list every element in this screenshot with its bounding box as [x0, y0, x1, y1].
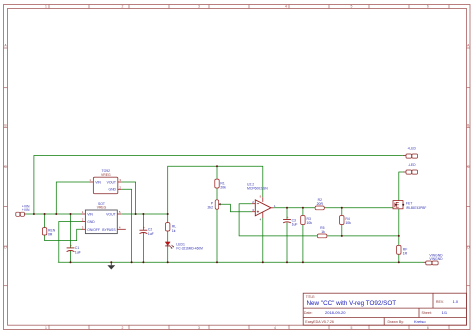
- capacitor C2: [140, 225, 154, 236]
- svg-text:VOUT: VOUT: [106, 212, 115, 216]
- svg-text:+LED: +LED: [407, 146, 416, 150]
- junction ground bus / opamp V-: [262, 261, 264, 263]
- svg-text:20R: 20R: [317, 202, 324, 206]
- wire C1 top: [70, 214, 72, 248]
- svg-text:2018-09-20: 2018-09-20: [325, 310, 346, 315]
- wire R2 to FET gate: [324, 207, 393, 209]
- wire ground bus: [58, 261, 424, 263]
- junction ground bus / RF bottom: [398, 261, 400, 263]
- junction gate wire / R4 top: [341, 207, 343, 209]
- wire REN bottom to ON/OFF: [45, 229, 82, 240]
- svg-text:+VIN: +VIN: [22, 208, 30, 212]
- wire LED to ground bus: [167, 246, 169, 262]
- svg-text:ON/OFF: ON/OFF: [87, 228, 100, 232]
- svg-text:GND: GND: [108, 188, 116, 192]
- wire VIN bus from input connector to SOT VIN: [26, 213, 82, 215]
- wire TO92 VOUT down: [122, 182, 136, 214]
- resistor R5: [317, 226, 327, 238]
- wire TO92 GND down: [122, 189, 132, 262]
- wire opamp V- to ground bus: [262, 218, 264, 262]
- connector -LED pads: [403, 170, 418, 174]
- svg-text:IRLB8743PBF: IRLB8743PBF: [406, 206, 426, 210]
- svg-text:1/1: 1/1: [442, 310, 448, 315]
- svg-text:New "CC" with V-reg TO92/SOT: New "CC" with V-reg TO92/SOT: [307, 300, 397, 307]
- wire R3 bottom: [302, 225, 304, 263]
- connector +LED pads: [403, 154, 418, 158]
- junction VOUT rail / TO92 VOUT: [135, 213, 137, 215]
- wire RF bottom: [398, 254, 400, 262]
- wire SOT GND to ground bus: [59, 222, 82, 263]
- svg-text:Drawn By:: Drawn By:: [388, 320, 405, 324]
- svg-text:1k: 1k: [321, 230, 325, 234]
- wire R4 bottom: [341, 225, 343, 236]
- wire REN top: [44, 214, 46, 228]
- svg-text:6: 6: [427, 5, 429, 9]
- junction ground bus / R3 bottom: [302, 261, 304, 263]
- connector VINGND pads: [424, 261, 439, 265]
- wire R4 top: [341, 208, 343, 216]
- junction VIN rail / C1 top: [70, 213, 72, 215]
- capacitor C3: [283, 215, 297, 227]
- ground symbol: [107, 262, 115, 269]
- svg-text:2: 2: [122, 326, 124, 330]
- svg-text:BYPASS: BYPASS: [102, 228, 116, 232]
- svg-text:REV.: REV.: [436, 300, 444, 304]
- svg-text:1: 1: [45, 326, 47, 330]
- junction opamp output / C3: [286, 207, 288, 209]
- svg-text:6: 6: [427, 326, 429, 330]
- wire C2 top: [142, 214, 144, 230]
- wire feedback right segment: [327, 235, 399, 237]
- wire pot wiper to opamp non-inverting input: [220, 204, 252, 212]
- svg-text:5: 5: [351, 326, 353, 330]
- junction VOUT rail / C2 top: [142, 213, 144, 215]
- svg-text:10k: 10k: [345, 221, 351, 225]
- connector P+VIN pads: [16, 212, 26, 216]
- junction feedback wire / R4 bottom: [341, 235, 343, 237]
- svg-text:Kretso: Kretso: [414, 319, 426, 324]
- svg-text:EasyEDA V5.7.26: EasyEDA V5.7.26: [305, 320, 334, 324]
- resistor RF: [397, 245, 408, 255]
- junction ground bus / LED1 cathode: [167, 261, 169, 263]
- LED LED1: [165, 242, 203, 251]
- resistor R1: [215, 179, 226, 189]
- svg-text:TITLE:: TITLE:: [306, 295, 316, 299]
- wire R1 top: [216, 166, 218, 179]
- wire C2 bottom: [142, 233, 144, 262]
- svg-text:VREG: VREG: [97, 206, 107, 210]
- svg-text:3: 3: [198, 5, 200, 9]
- svg-text:4: 4: [274, 326, 276, 330]
- ruler row letters left: [4, 44, 7, 250]
- svg-text:1uF: 1uF: [75, 250, 81, 254]
- wire RL to LED: [167, 231, 169, 242]
- junction ground bus / C1 bottom: [70, 261, 72, 263]
- svg-text:-LED: -LED: [408, 163, 416, 167]
- svg-text:Sheet:: Sheet:: [422, 311, 432, 315]
- svg-text:2k2: 2k2: [208, 205, 214, 209]
- svg-text:1uF: 1uF: [148, 232, 154, 236]
- wire TO92 VIN branch: [56, 182, 89, 214]
- svg-text:1.0: 1.0: [453, 299, 459, 304]
- svg-text:1R: 1R: [403, 252, 408, 256]
- wire RL branch: [167, 214, 169, 223]
- op-amp U2.2 MCP6002/SN: [247, 182, 276, 221]
- ruler ticks top: [49, 5, 449, 9]
- wire VOUT rail to opamp supply: [168, 166, 263, 214]
- junction ground bus / pot bottom: [216, 261, 218, 263]
- regulator U SOT VREG: [82, 202, 126, 234]
- svg-text:1: 1: [45, 5, 47, 9]
- ruler ticks left: [4, 48, 8, 286]
- ruler ticks bottom: [49, 325, 449, 329]
- resistor R2: [315, 198, 324, 210]
- wire opamp inverting input feedback: [239, 204, 317, 236]
- junction feedback wire / FET source: [398, 235, 400, 237]
- svg-text:1k: 1k: [172, 229, 176, 233]
- ruler row letters right: [467, 44, 470, 250]
- junction VIN rail / REN top: [44, 213, 46, 215]
- svg-text:2: 2: [122, 5, 124, 9]
- svg-text:3: 3: [198, 326, 200, 330]
- junction VIN rail / TO92 VIN branch: [55, 213, 57, 215]
- wire C3 top: [286, 208, 288, 219]
- svg-text:VOUT: VOUT: [107, 181, 116, 185]
- svg-text:GND: GND: [87, 220, 95, 224]
- potentiometer P: [208, 200, 221, 210]
- wire R1 to pot: [216, 188, 218, 200]
- capacitor C1: [67, 243, 81, 255]
- svg-text:0R: 0R: [48, 232, 53, 236]
- svg-text:MCP6002/SN: MCP6002/SN: [247, 187, 268, 191]
- title block frame: [303, 293, 466, 325]
- wire -LED to FET drain: [399, 172, 403, 201]
- svg-text:10k: 10k: [307, 221, 313, 225]
- ruler column numbers bottom: [45, 326, 429, 330]
- wire opamp output: [274, 207, 315, 209]
- ruler column numbers top: [45, 5, 429, 9]
- wire FET source to RF: [398, 209, 400, 246]
- junction VIN rail / top rail riser: [33, 213, 35, 215]
- junction ground bus / ground symbol: [110, 261, 112, 263]
- junction VOUT rail / RL riser: [167, 213, 169, 215]
- wire C1 bottom: [70, 251, 72, 262]
- svg-text:FC-3216MD-460M: FC-3216MD-460M: [176, 247, 203, 251]
- svg-text:VINGND: VINGND: [429, 257, 443, 261]
- junction ground bus / TO92 GND: [131, 261, 133, 263]
- resistor REN: [42, 228, 55, 237]
- wire C3 bottom: [286, 223, 288, 263]
- resistor RL: [166, 223, 177, 233]
- wire SOT VOUT rail: [121, 213, 168, 215]
- svg-text:VREG: VREG: [101, 173, 111, 177]
- regulator U TO92 VREG: [89, 169, 121, 194]
- transistor FET IRLB8743PBF: [393, 201, 426, 210]
- svg-text:Date:: Date:: [304, 311, 313, 315]
- junction ground bus / C2 bottom: [142, 261, 144, 263]
- resistor R3: [301, 216, 313, 226]
- junction opamp output / R3: [302, 207, 304, 209]
- junction ground bus / C3 bottom: [286, 261, 288, 263]
- svg-text:VIN: VIN: [95, 181, 101, 185]
- resistor R4: [340, 216, 352, 226]
- svg-text:5: 5: [351, 5, 353, 9]
- wire R3 top: [302, 208, 304, 216]
- junction VOUT top rail / R1 top: [216, 165, 218, 167]
- svg-text:VIN: VIN: [87, 212, 93, 216]
- svg-text:20k: 20k: [220, 186, 226, 190]
- svg-text:FET: FET: [406, 201, 412, 205]
- ruler ticks right: [467, 48, 471, 286]
- svg-text:1uF: 1uF: [292, 223, 298, 227]
- wire +LED top rail vertical riser: [34, 156, 403, 215]
- wire pot bottom to ground bus: [216, 209, 218, 262]
- svg-text:4: 4: [285, 5, 287, 9]
